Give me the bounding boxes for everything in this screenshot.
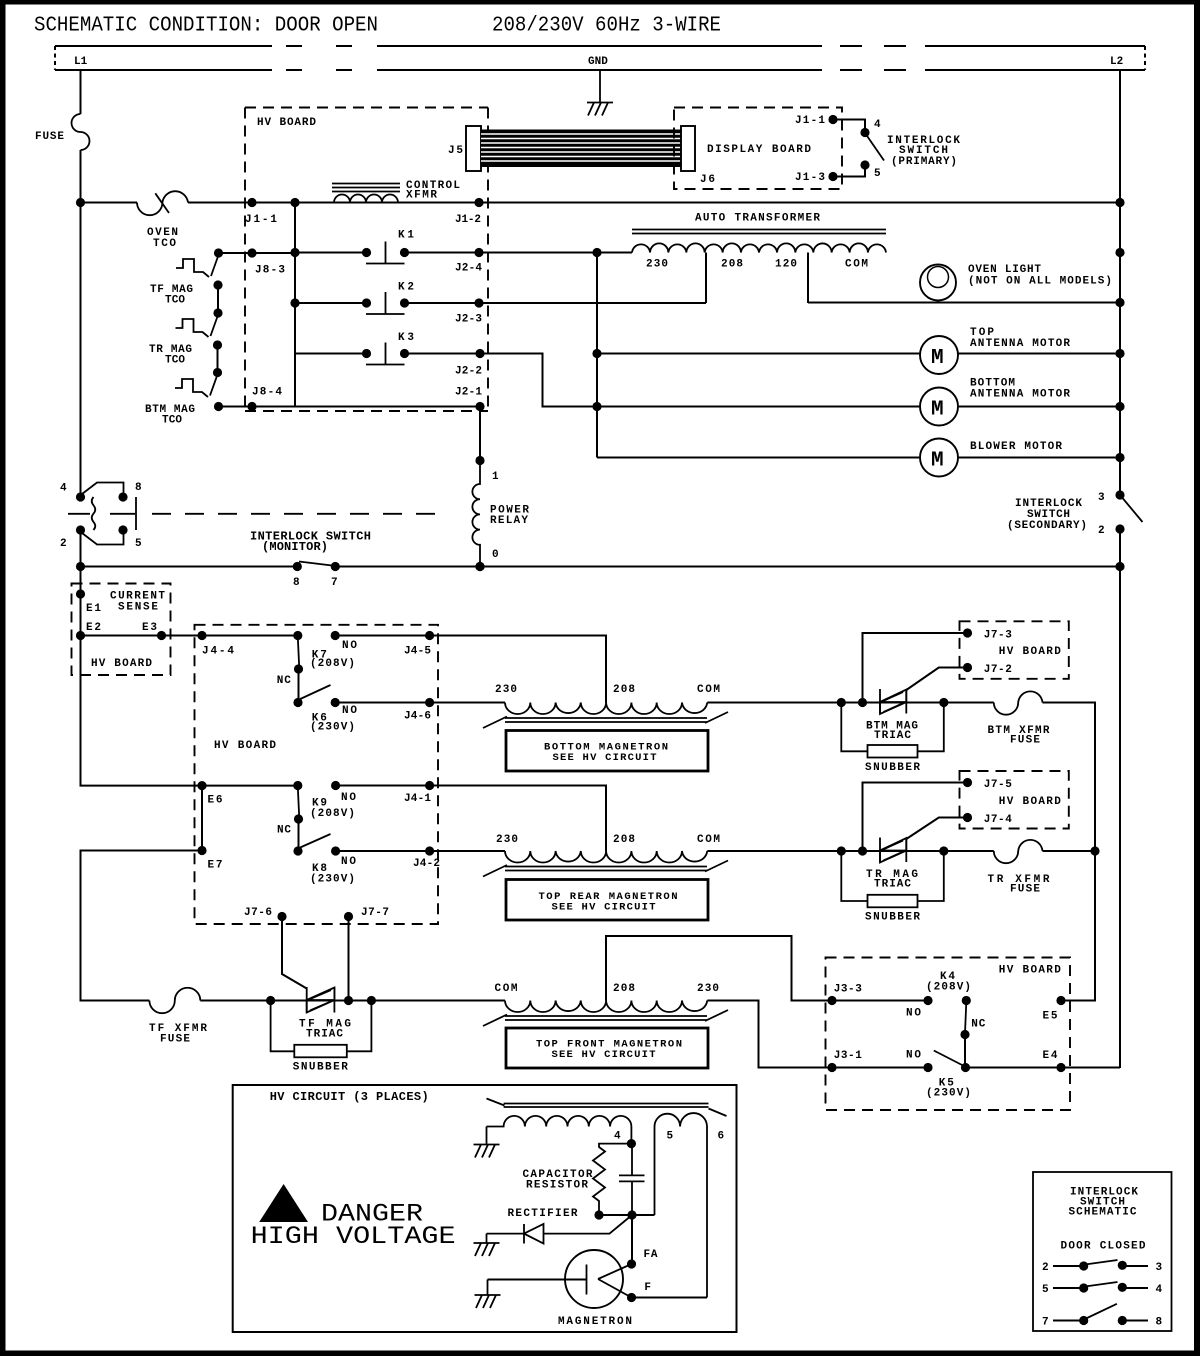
- switch monitor contact 8-7: [293, 562, 340, 572]
- svg-text:ANTENNA MOTOR: ANTENNA MOTOR: [970, 338, 1070, 350]
- svg-text:TRIAC: TRIAC: [874, 879, 911, 891]
- svg-text:J6: J6: [700, 174, 715, 186]
- svg-text:DISPLAY BOARD: DISPLAY BOARD: [707, 144, 811, 156]
- svg-text:HV BOARD: HV BOARD: [999, 965, 1061, 977]
- wire monitor row y566.5: [81, 566, 1121, 568]
- svg-text:HV BOARD: HV BOARD: [257, 117, 316, 129]
- wire E6-E7 link: [201, 786, 203, 851]
- svg-text:TRIAC: TRIAC: [874, 730, 911, 742]
- svg-text:J3-3: J3-3: [834, 984, 862, 996]
- svg-text:TCO: TCO: [153, 238, 176, 250]
- svg-text:NO: NO: [341, 856, 356, 868]
- wire BTM row triac to fuse: [906, 702, 994, 704]
- HV board box K4/K5 (dashed): [826, 958, 1071, 1111]
- svg-text:NO: NO: [906, 1050, 921, 1062]
- node TR triac right: [939, 846, 948, 855]
- svg-text:HV BOARD: HV BOARD: [91, 658, 152, 670]
- wire oven light row: [808, 302, 1120, 304]
- transformer TF primary winding: [505, 1001, 707, 1013]
- ribbon cable to display board: [481, 130, 681, 168]
- inductor auto transformer winding: [632, 243, 886, 252]
- node power relay pin 0: [475, 562, 484, 571]
- svg-text:HV BOARD: HV BOARD: [999, 646, 1061, 658]
- node TR fuse/vertical junction: [1090, 846, 1099, 855]
- node vert597/bottom antenna row: [592, 402, 601, 411]
- wire top antenna motor row: [597, 353, 1120, 355]
- node K1 row x295: [290, 248, 299, 257]
- svg-text:J1-3: J1-3: [795, 172, 825, 184]
- transformer BTM core: [483, 712, 728, 728]
- svg-text:SEE HV CIRCUIT: SEE HV CIRCUIT: [553, 752, 657, 764]
- svg-text:COM: COM: [495, 983, 518, 995]
- svg-text:M: M: [931, 347, 944, 370]
- snubber TR: [841, 851, 944, 924]
- svg-text:J1-1: J1-1: [795, 115, 825, 127]
- svg-text:TCO: TCO: [162, 415, 182, 427]
- svg-text:(NOT ON ALL MODELS): (NOT ON ALL MODELS): [968, 276, 1112, 288]
- switch interlock primary: [860, 128, 884, 170]
- svg-text:208: 208: [721, 259, 743, 271]
- svg-text:J1-1: J1-1: [245, 214, 277, 226]
- triac TR MAG TRIAC: [880, 838, 906, 863]
- svg-text:NO: NO: [341, 792, 356, 804]
- node J2-1: [475, 402, 484, 411]
- svg-text:J2-2: J2-2: [455, 366, 482, 378]
- ground symbol (magnetron cathode): [475, 1280, 501, 1309]
- HV board box J7-3/J7-2 (dashed): [960, 621, 1069, 679]
- svg-text:J7-7: J7-7: [361, 907, 389, 919]
- node J7-2: [963, 663, 972, 672]
- svg-text:MAGNETRON: MAGNETRON: [558, 1316, 632, 1328]
- relay switch K4: [923, 996, 971, 1039]
- node E2: [76, 631, 85, 640]
- wire J7-7 to TF row: [348, 917, 350, 1001]
- thermal cutout TF MAG TCO: [176, 255, 223, 290]
- node pin 4: [627, 1139, 636, 1148]
- svg-text:J1-2: J1-2: [455, 214, 481, 226]
- fuse TR XFMR FUSE: [994, 840, 1043, 863]
- svg-text:2: 2: [60, 538, 67, 550]
- svg-text:(PRIMARY): (PRIMARY): [891, 156, 957, 168]
- svg-text:(SECONDARY): (SECONDARY): [1007, 520, 1087, 532]
- svg-text:NC: NC: [277, 825, 291, 837]
- svg-text:FUSE: FUSE: [160, 1034, 190, 1046]
- svg-text:E7: E7: [208, 860, 223, 872]
- display board box (dashed): [674, 108, 842, 190]
- svg-text:SEE HV CIRCUIT: SEE HV CIRCUIT: [552, 902, 656, 914]
- svg-text:J4-5: J4-5: [404, 646, 431, 658]
- node E7: [197, 846, 206, 855]
- svg-text:4: 4: [60, 483, 67, 495]
- svg-text:NO: NO: [342, 640, 357, 652]
- svg-text:(230V): (230V): [310, 722, 355, 734]
- node E3: [157, 631, 166, 640]
- switch row 5-4 (closed): [1053, 1282, 1148, 1293]
- svg-text:4: 4: [614, 1131, 621, 1143]
- box BOTTOM MAGNETRON SEE HV CIRCUIT: [506, 731, 708, 772]
- magnetron tube: [488, 1250, 632, 1308]
- node K1row/vert597: [592, 248, 601, 257]
- relay switch K8 (230V): [293, 834, 340, 856]
- svg-text:M: M: [931, 450, 944, 473]
- motor M bottom antenna: [920, 388, 958, 426]
- svg-text:(208V): (208V): [310, 658, 355, 670]
- wire junction row under cap: [599, 1214, 655, 1216]
- svg-text:(MONITOR): (MONITOR): [262, 540, 328, 554]
- wire J1-3 to interlock primary pin 5: [833, 165, 865, 177]
- svg-text:(230V): (230V): [926, 1088, 971, 1100]
- wire J7-4 gate to TR triac: [906, 818, 967, 840]
- node bottom antenna row at L2: [1115, 402, 1124, 411]
- switch row 2-3 (closed): [1053, 1260, 1148, 1271]
- node J1-1 (display board): [828, 115, 837, 124]
- relay coil POWER RELAY: [472, 461, 480, 567]
- wire TR fuse to vertical: [1043, 850, 1096, 852]
- node power relay pin 1: [475, 456, 484, 465]
- node J1-1: [247, 198, 256, 207]
- snubber TF: [271, 1001, 372, 1074]
- switch interlock monitor (4-8 / 2-5): [68, 483, 136, 545]
- node F: [627, 1293, 636, 1302]
- svg-text:E1: E1: [86, 603, 101, 615]
- relay board box (middle, dashed): [195, 625, 439, 924]
- wire L2 rail: [1119, 70, 1121, 1068]
- wire NC to K8: [298, 819, 300, 851]
- svg-text:4: 4: [1156, 1284, 1163, 1296]
- node J8-3 pin: [247, 248, 256, 257]
- svg-text:7: 7: [1042, 1317, 1049, 1329]
- node top antenna row at L2: [1115, 349, 1124, 358]
- triac TF MAG TRIAC: [307, 987, 335, 1013]
- wire J1-1 to interlock primary pin 4: [833, 120, 865, 133]
- transformer BTM primary winding: [505, 703, 707, 715]
- ground symbol (rectifier): [474, 1234, 500, 1256]
- node J2-3: [474, 298, 483, 307]
- wire TR row to triac: [707, 850, 906, 852]
- svg-text:J7-4: J7-4: [984, 814, 1012, 826]
- node oven light row at L2: [1115, 298, 1124, 307]
- HV board box J7-5/J7-4 (dashed): [960, 771, 1069, 829]
- node J4-2: [425, 846, 434, 855]
- wire TF 208 tap to J3-3: [606, 936, 928, 1001]
- node coil end at L2 rail: [1115, 248, 1124, 257]
- current sense box (dashed): [72, 584, 171, 676]
- svg-text:E2: E2: [86, 622, 101, 634]
- triac BTM MAG TRIAC: [880, 689, 906, 714]
- relay switch K9 (208V): [293, 781, 340, 824]
- svg-text:FA: FA: [644, 1249, 658, 1261]
- thermal cutout chain: node J8-3 top: [214, 248, 223, 257]
- danger triangle: [259, 1184, 308, 1222]
- node J3-1: [827, 1063, 836, 1072]
- svg-text:3: 3: [1098, 492, 1105, 504]
- wire K1 row (J8-3 to coil): [295, 252, 632, 254]
- svg-text:L1: L1: [74, 56, 88, 68]
- transformer TR primary winding: [505, 851, 707, 863]
- relay contact K2: [362, 292, 409, 314]
- svg-text:FUSE: FUSE: [1010, 735, 1040, 747]
- relay switch K5: [923, 1051, 970, 1073]
- fuse BTM XFMR FUSE: [994, 691, 1043, 714]
- wire x295 vertical branch: [294, 203, 296, 407]
- wire E2/E3 row to K7: [81, 636, 607, 703]
- svg-text:E5: E5: [1043, 1011, 1058, 1023]
- svg-text:TCO: TCO: [165, 355, 185, 367]
- svg-text:J7-5: J7-5: [984, 779, 1012, 791]
- svg-text:230: 230: [495, 684, 517, 696]
- switch interlock secondary: [1115, 490, 1142, 533]
- transformer control XFMR core: [332, 184, 400, 192]
- svg-text:5: 5: [874, 168, 881, 180]
- svg-text:SEE HV CIRCUIT: SEE HV CIRCUIT: [552, 1049, 656, 1061]
- svg-text:RECTIFIER: RECTIFIER: [508, 1208, 578, 1220]
- node J8-4 pin: [247, 402, 256, 411]
- svg-text:NO: NO: [906, 1008, 921, 1020]
- svg-text:E3: E3: [142, 622, 157, 634]
- svg-text:J4-4: J4-4: [202, 646, 234, 658]
- node J7-6: [277, 912, 286, 921]
- node J7-5: [963, 778, 972, 787]
- power bus L1/GND/L2: [55, 46, 1145, 70]
- wire blower motor row: [597, 457, 1120, 459]
- svg-text:TCO: TCO: [165, 295, 185, 307]
- wire E7 row left to L1 branch: [81, 851, 203, 1001]
- wire J7-3 to BTM row: [863, 633, 968, 703]
- svg-text:TRIAC: TRIAC: [306, 1029, 343, 1041]
- svg-text:4: 4: [874, 119, 881, 131]
- wire pin4 junction drop to FA: [631, 1215, 633, 1264]
- wire NC to K6: [298, 669, 300, 703]
- svg-text:SCHEMATIC: SCHEMATIC: [1069, 1207, 1137, 1219]
- svg-text:NC: NC: [277, 675, 291, 687]
- wire K5 to E4 to L2 rail: [966, 1067, 1121, 1070]
- svg-text:2: 2: [1042, 1262, 1049, 1274]
- relay switch K6 (230V): [293, 685, 339, 707]
- mechanical linkage dashed line: [152, 513, 446, 515]
- wire tap COM drop: [807, 253, 809, 304]
- svg-text:(208V): (208V): [310, 808, 355, 820]
- node junction L2/row202: [1115, 198, 1124, 207]
- svg-text:5: 5: [667, 1131, 674, 1143]
- node monitor row at L1: [76, 562, 85, 571]
- interlock switch schematic box: [1033, 1172, 1172, 1331]
- svg-text:J7-2: J7-2: [984, 664, 1012, 676]
- transformer TR core: [483, 861, 728, 877]
- svg-text:230: 230: [646, 259, 668, 271]
- ground symbol (chassis, top): [587, 103, 613, 116]
- wire TCO chain mid2: [217, 345, 219, 373]
- ground symbol (HV secondary): [474, 1127, 500, 1158]
- capacitor HV cap: [619, 1144, 645, 1215]
- svg-text:HV BOARD: HV BOARD: [999, 796, 1061, 808]
- node cap bottom junction: [627, 1210, 636, 1219]
- node resistor bottom: [594, 1210, 603, 1219]
- node J1-3 (display board): [828, 172, 837, 181]
- svg-text:GND: GND: [588, 56, 608, 68]
- node E6: [197, 781, 206, 790]
- relay contact K1: [362, 242, 409, 264]
- HV circuit box: [233, 1085, 737, 1332]
- transformer HV core: [487, 1099, 727, 1117]
- node K2 row x295: [290, 298, 299, 307]
- svg-text:2: 2: [1098, 525, 1105, 537]
- node FA: [627, 1259, 636, 1268]
- svg-text:OVEN LIGHT: OVEN LIGHT: [968, 264, 1041, 276]
- wire J7-5 to TR row: [863, 783, 968, 852]
- transformer auto core: [632, 230, 886, 234]
- node J1-2: [474, 198, 483, 207]
- node J7-4: [963, 813, 972, 822]
- node J3-3: [827, 996, 836, 1005]
- svg-text:J5: J5: [448, 145, 463, 157]
- wire GND drop: [599, 70, 601, 103]
- wire F to filament pin 6: [632, 1297, 708, 1299]
- wire bottom antenna motor row: [597, 406, 1120, 408]
- wire K3 row: [295, 353, 480, 355]
- node TF snubber left: [266, 996, 275, 1005]
- node J2-2: [475, 349, 484, 358]
- lamp oven light: [920, 265, 956, 301]
- svg-text:BLOWER MOTOR: BLOWER MOTOR: [970, 441, 1062, 453]
- wire K8 row to TR coil: [336, 850, 505, 852]
- wire TCO chain mid1: [217, 285, 219, 313]
- wire power relay coil drop from J2-1: [479, 407, 481, 461]
- node blower row at L2: [1115, 453, 1124, 462]
- svg-text:COM: COM: [697, 834, 720, 846]
- wire TCO chain to J8-3: [219, 252, 296, 254]
- node TF snubber right: [367, 996, 376, 1005]
- svg-text:E4: E4: [1043, 1050, 1058, 1062]
- wire L1 rail upper: [80, 70, 82, 497]
- svg-text:1: 1: [492, 471, 499, 483]
- wire L1 rail lower to E6 row: [81, 530, 203, 786]
- node monitor row at relay: [475, 562, 484, 571]
- svg-text:XFMR: XFMR: [406, 190, 437, 202]
- svg-text:HV CIRCUIT (3 PLACES): HV CIRCUIT (3 PLACES): [270, 1090, 429, 1104]
- svg-text:ANTENNA MOTOR: ANTENNA MOTOR: [970, 389, 1070, 401]
- node J2-4: [474, 248, 483, 257]
- wire J7-2 gate to BTM triac: [906, 668, 967, 691]
- svg-text:DOOR CLOSED: DOOR CLOSED: [1061, 1241, 1146, 1253]
- wire TR row triac to fuse: [906, 850, 994, 852]
- motor M blower: [920, 439, 958, 477]
- svg-text:SENSE: SENSE: [118, 602, 158, 614]
- fuse FUSE on L1 rail: [72, 114, 90, 150]
- inductor HV secondary winding: [487, 1116, 632, 1144]
- node BTM J7-3 drop: [858, 698, 867, 707]
- svg-text:8: 8: [1156, 1317, 1163, 1329]
- transformer TF core: [483, 1010, 728, 1026]
- svg-text:J2-4: J2-4: [455, 263, 482, 275]
- wire E5 to TR fuse vertical: [1061, 851, 1095, 1001]
- inductor control XFMR winding: [334, 195, 398, 203]
- node BTM snubber left: [837, 698, 846, 707]
- svg-text:(208V): (208V): [926, 982, 971, 994]
- relay switch K7 (208V): [293, 631, 340, 674]
- svg-text:J2-1: J2-1: [455, 387, 482, 399]
- box TOP FRONT MAGNETRON SEE HV CIRCUIT: [506, 1028, 708, 1068]
- svg-text:208: 208: [613, 834, 635, 846]
- relay contact K3: [362, 343, 409, 365]
- svg-text:FUSE: FUSE: [1010, 884, 1040, 896]
- node junction L1/row202: [76, 198, 85, 207]
- node J7-7: [344, 912, 353, 921]
- svg-text:RESISTOR: RESISTOR: [526, 1180, 588, 1192]
- svg-text:E6: E6: [208, 795, 223, 807]
- svg-text:J4-1: J4-1: [404, 793, 431, 805]
- svg-text:7: 7: [331, 577, 338, 589]
- svg-text:208: 208: [613, 684, 635, 696]
- svg-text:J2-3: J2-3: [455, 314, 482, 326]
- motor M top antenna: [920, 336, 958, 374]
- wire TF 230 end to J3-1: [707, 1001, 928, 1068]
- svg-text:HV BOARD: HV BOARD: [214, 740, 276, 752]
- svg-text:M: M: [931, 399, 944, 422]
- wire BTM fuse to corner down: [1043, 703, 1096, 852]
- svg-text:5: 5: [135, 538, 142, 550]
- switch row 7-8 (open): [1053, 1304, 1148, 1325]
- svg-text:SCHEMATIC CONDITION: DOOR OPEN: SCHEMATIC CONDITION: DOOR OPEN: [34, 14, 378, 38]
- node E4: [1056, 1063, 1065, 1072]
- node vert597/top antenna row: [592, 349, 601, 358]
- svg-text:5: 5: [1042, 1284, 1049, 1296]
- svg-text:FUSE: FUSE: [35, 131, 64, 143]
- wire tap 208 drop: [705, 253, 707, 304]
- svg-text:120: 120: [775, 259, 797, 271]
- wire BTM row to triac: [707, 702, 906, 704]
- wire vertical x597: [596, 253, 598, 458]
- wire main row y202 L1 to L2: [81, 202, 1121, 204]
- svg-text:J4-6: J4-6: [404, 711, 431, 723]
- node J4-1: [425, 781, 434, 790]
- svg-text:230: 230: [496, 834, 518, 846]
- node monitor row at L2: [1115, 562, 1124, 571]
- diode rectifier: [487, 1215, 633, 1244]
- thermal cutout BTM MAG TCO: [175, 368, 223, 411]
- node J4-5: [425, 631, 434, 640]
- node J4-4: [197, 631, 206, 640]
- HV board box (top, dashed): [245, 108, 488, 412]
- svg-text:J3-1: J3-1: [834, 1050, 862, 1062]
- svg-text:J8-3: J8-3: [255, 265, 285, 277]
- svg-text:208: 208: [613, 983, 635, 995]
- svg-text:COM: COM: [697, 684, 720, 696]
- svg-text:(230V): (230V): [310, 874, 355, 886]
- node J7-3: [963, 628, 972, 637]
- wire K4 NC to K5: [964, 1035, 966, 1068]
- svg-text:3: 3: [1156, 1262, 1163, 1274]
- node row202/x295 branch: [290, 198, 299, 207]
- svg-text:J8-4: J8-4: [252, 387, 282, 399]
- svg-text:F: F: [644, 1282, 651, 1294]
- snubber BTM: [841, 703, 944, 775]
- wire J2-2 jog to top antenna row: [480, 354, 597, 407]
- inductor filament winding pins 5-6: [655, 1113, 708, 1297]
- resistor capacitor-resistor: [593, 1144, 632, 1215]
- wire J7-6 to TF triac gate: [282, 917, 307, 989]
- connector J6: [681, 126, 695, 171]
- thermal cutout TR MAG TCO: [176, 308, 223, 349]
- svg-text:RELAY: RELAY: [490, 515, 528, 527]
- thermal cutout OVEN TCO: [137, 191, 188, 215]
- svg-text:J7-3: J7-3: [984, 630, 1012, 642]
- svg-text:6: 6: [718, 1131, 725, 1143]
- svg-text:J4-2: J4-2: [413, 858, 440, 870]
- svg-text:L2: L2: [1110, 56, 1123, 68]
- wire J8-4 row: [219, 406, 481, 408]
- svg-text:AUTO TRANSFORMER: AUTO TRANSFORMER: [695, 213, 820, 225]
- fuse TF XFMR FUSE: [149, 988, 200, 1013]
